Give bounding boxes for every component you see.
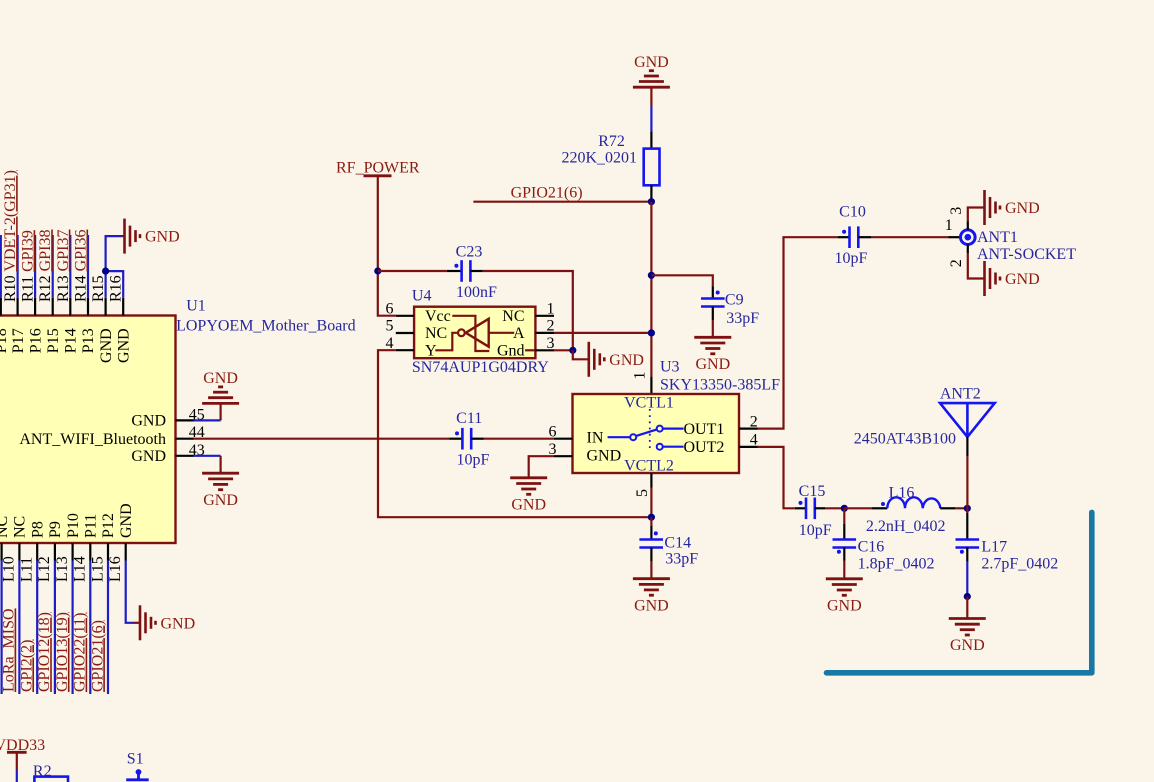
IC U1 LOPYOEM_Mother_Board body [0,316,176,544]
wire vertical net [650,202,652,377]
wire [71,561,73,695]
U4 pin 3 Gnd [497,335,555,360]
svg-text:LOPYOEM_Mother_Board: LOPYOEM_Mother_Board [176,317,356,334]
wire [194,419,221,421]
junction U4 pin3/C23 [569,347,576,354]
svg-text:R12 GPI38: R12 GPI38 [37,230,54,302]
U4 pin 2 A [513,318,555,343]
svg-text:U1: U1 [186,298,206,315]
U4 inverter triangle [466,319,489,347]
wire ANT1 pin3 to gnd [968,208,985,222]
svg-text:GND: GND [634,54,669,71]
svg-text:GND: GND [511,497,546,514]
svg-text:C14: C14 [664,534,691,551]
U4 pin 6 Vcc [386,301,451,326]
svg-text:C23: C23 [456,244,483,261]
wire [0,235,2,298]
wire RF_POWER vertical [378,176,396,316]
junction R72/GPIO21 [648,198,655,205]
ground (C9) [694,337,731,373]
ground (C14) [633,579,670,615]
wire [16,769,18,782]
svg-text:L12: L12 [36,556,53,582]
wire GPIO21(6) [473,201,651,203]
resistor R72 220K_0201 [561,131,659,202]
wire [87,235,89,298]
svg-text:IN: IN [587,429,604,446]
svg-text:GND: GND [827,598,862,615]
svg-text:R15: R15 [90,275,107,302]
svg-text:R72: R72 [598,133,625,150]
U1 top pin GND [98,298,115,363]
svg-text:10pF: 10pF [799,522,832,539]
wire C23 right to U4 Gnd net [483,271,573,350]
svg-text:NC: NC [0,516,11,538]
svg-text:2.7pF_0402: 2.7pF_0402 [981,555,1058,572]
svg-text:OUT1: OUT1 [684,421,725,438]
svg-text:Vcc: Vcc [425,308,451,325]
svg-text:3: 3 [547,335,555,352]
svg-text:S1: S1 [127,751,144,768]
svg-text:1.8pF_0402: 1.8pF_0402 [858,555,935,572]
wire [484,438,554,440]
svg-text:NC: NC [425,325,447,342]
svg-text:GND: GND [695,356,730,373]
svg-text:C9: C9 [725,292,744,309]
svg-text:GND: GND [145,229,180,246]
U4 internal Y link [435,333,458,351]
wire [89,561,91,695]
svg-text:GND: GND [161,615,196,632]
svg-text:ANT2: ANT2 [940,386,981,403]
ground (ANT1 pin 2) [985,261,1040,296]
wire ANT_WIFI_Bluetooth [194,438,450,440]
svg-text:2450AT43B100: 2450AT43B100 [854,431,956,448]
junction VCTL2/C14 [648,514,655,521]
ground (C16) [826,579,863,615]
svg-text:P15: P15 [45,328,62,353]
svg-text:L15: L15 [89,556,106,582]
U1 bottom pin P11 [83,514,100,561]
junction C15/C16/L16 [841,505,848,512]
svg-text:5: 5 [386,318,394,335]
U4 internal A link [489,332,515,334]
U1 pin 45 GND [131,406,204,429]
svg-text:GND: GND [634,597,669,614]
svg-text:ANT-SOCKET: ANT-SOCKET [977,246,1076,263]
svg-text:GND: GND [131,413,166,430]
svg-text:P18: P18 [0,328,10,353]
wire [220,403,222,420]
svg-text:R11 GPI39: R11 GPI39 [20,230,37,302]
svg-text:R10 VDET-2(GP31): R10 VDET-2(GP31) [2,170,19,302]
wire [650,87,652,105]
svg-text:C15: C15 [799,483,826,500]
svg-text:R16: R16 [108,275,125,302]
svg-text:U3: U3 [660,359,680,376]
wire [650,105,652,131]
svg-text:2: 2 [948,259,965,267]
U4 internal Vcc link [452,316,489,351]
wire U4 pin4 Y to VCTL2 [378,350,651,517]
svg-text:LoRa_MISO: LoRa_MISO [1,608,18,692]
svg-text:P10: P10 [65,513,82,538]
wire [966,597,968,619]
U3 pin 6 IN [549,423,604,446]
ground (U3 GND) [510,478,547,514]
capacitor C15 10pF [795,483,832,539]
svg-text:Y: Y [425,342,437,359]
svg-text:P8: P8 [29,521,46,538]
svg-text:220K_0201: 220K_0201 [561,149,637,166]
junction A-pin branch [648,329,655,336]
wire stub to ground [122,235,125,237]
border corner (teal) [827,512,1092,672]
power port VDD33 [0,737,45,754]
svg-text:GND: GND [203,370,238,387]
svg-text:GND: GND [1005,271,1040,288]
capacitor C11 10pF [449,410,489,469]
svg-text:L10: L10 [1,556,18,582]
svg-text:C16: C16 [858,539,885,556]
capacitor C10 10pF [835,204,871,267]
antenna socket ANT1 [945,207,1076,267]
wire [955,507,967,509]
wire [712,320,714,337]
capacitor C16 1.8pF_0402 [833,508,935,572]
svg-text:6: 6 [386,301,394,318]
svg-text:ANT1: ANT1 [977,229,1018,246]
wire OUT1 to C10 [758,237,839,428]
svg-text:L16: L16 [107,556,124,582]
U3 pin 2 OUT1 [684,413,758,438]
wire [844,507,872,509]
svg-text:P12: P12 [100,513,117,538]
U1 top pin P16 [27,298,44,353]
svg-text:GND: GND [203,492,238,509]
wire [36,561,38,695]
svg-text:GPIO22(11): GPIO22(11) [72,613,89,692]
svg-text:L11: L11 [18,557,35,582]
wire [843,561,845,579]
U1 pin 44 ANT_WIFI_Bluetooth [19,424,204,448]
junction C9 branch [648,272,655,279]
svg-text:L14: L14 [72,556,89,582]
svg-text:P16: P16 [27,328,44,353]
wire [650,517,652,526]
wire [17,235,19,298]
junction R15/R16 [102,268,109,275]
svg-text:P13: P13 [80,328,97,353]
svg-text:RF_POWER: RF_POWER [336,160,420,177]
svg-text:33pF: 33pF [726,310,759,327]
svg-text:2.2nH_0402: 2.2nH_0402 [866,518,946,535]
wire [69,235,71,298]
wire [651,275,712,286]
svg-text:SKY13350-385LF: SKY13350-385LF [660,376,780,393]
U1 bottom pin NC [12,516,29,561]
wire [18,561,20,695]
U1 top pin GND [115,298,132,363]
svg-text:U4: U4 [412,288,432,305]
svg-text:1: 1 [547,301,555,318]
capacitor C9 33pF [701,286,759,327]
U1 bottom pin GND [118,503,135,560]
U1 bottom pin P10 [65,513,82,560]
wire U4 pin2 A to net [554,332,651,334]
svg-text:R13 GPI37: R13 GPI37 [55,230,72,302]
capacitor C14 33pF [639,526,698,567]
svg-text:C11: C11 [456,410,482,427]
svg-text:5: 5 [634,489,651,497]
U1 bottom pin P12 [100,513,117,560]
U4 pin 5 NC [386,318,448,343]
svg-text:OUT2: OUT2 [684,439,725,456]
wire R16 net [106,271,124,298]
svg-text:2: 2 [750,413,758,430]
switch S1 [126,751,149,780]
svg-text:GND: GND [1005,200,1040,217]
svg-text:P17: P17 [10,328,27,353]
svg-text:P11: P11 [83,514,100,538]
wire [966,456,968,508]
IC U3 SKY13350-385LF body [573,394,740,473]
ground (top, above R72) [633,54,670,87]
svg-text:P14: P14 [63,328,80,353]
svg-text:GND: GND [609,352,644,369]
svg-text:Gnd: Gnd [497,343,525,360]
svg-text:10pF: 10pF [456,452,489,469]
U4 pin 4 Y [386,335,438,360]
svg-text:GND: GND [950,637,985,654]
U1 top pin P13 [80,298,97,353]
svg-text:1: 1 [945,217,953,234]
resistor R2 [33,763,68,782]
capacitor C23 100nF [447,244,497,301]
IC U4 SN74AUP1G04DRY body [414,307,535,359]
U3 switch symbol [608,409,684,452]
capacitor L17 2.7pF_0402 [956,508,1059,572]
wire [54,561,56,695]
wire [966,562,968,597]
U1 bottom pin NC [0,516,11,561]
junction below L17 [964,593,971,600]
wire U3 pin1 [650,377,652,394]
wire [52,235,54,298]
wire [825,507,844,509]
svg-text:GPIO13(19): GPIO13(19) [54,612,71,692]
U1 bottom pin P8 [29,521,46,560]
U1 pin 43 GND [131,442,204,465]
ground (L17) [949,619,986,655]
svg-text:L17: L17 [981,539,1007,556]
svg-text:33pF: 33pF [665,550,698,567]
svg-text:GPI2(2): GPI2(2) [18,640,35,692]
ground (R15/R16) [125,219,180,254]
svg-text:SN74AUP1G04DRY: SN74AUP1G04DRY [412,359,549,376]
svg-text:L13: L13 [54,556,71,582]
svg-text:GPIO21(6): GPIO21(6) [511,185,583,202]
svg-text:R14 GPI36: R14 GPI36 [73,230,90,302]
svg-text:GPIO21(6): GPIO21(6) [89,620,106,692]
wire [650,562,652,579]
svg-text:3: 3 [948,207,965,215]
wire [573,350,589,359]
svg-text:GND: GND [587,448,622,465]
wire ANT1 pin2 to gnd [968,253,985,279]
svg-text:GND: GND [118,503,135,538]
wire [107,561,109,695]
svg-text:100nF: 100nF [456,284,497,301]
svg-text:A: A [513,325,525,342]
U1 top pin P17 [10,298,27,353]
svg-text:4: 4 [750,432,758,449]
svg-text:C10: C10 [839,204,866,221]
U1 top pin P14 [63,298,80,353]
junction L16/ANT2/L17 [964,505,971,512]
junction RF_POWER/C23 [374,267,381,274]
wire [16,752,18,769]
svg-text:GND: GND [115,328,132,363]
svg-text:10pF: 10pF [835,250,868,267]
svg-text:NC: NC [502,308,524,325]
wire [220,456,222,473]
svg-text:VCTL2: VCTL2 [624,458,674,475]
U3 pin 4 OUT2 [684,432,758,456]
U1 top pin P18 [0,298,10,353]
wire [871,236,949,238]
svg-text:ANT_WIFI_Bluetooth: ANT_WIFI_Bluetooth [19,431,166,448]
wire [378,270,447,272]
ground (ANT1 pin 3) [985,190,1040,225]
svg-text:P9: P9 [47,521,64,538]
antenna ANT2 2450AT43B100 [854,386,995,457]
svg-text:GND: GND [131,448,166,465]
ground (pin 43) [202,473,239,509]
svg-text:NC: NC [12,516,29,538]
wire OUT2 to C15 [758,447,795,508]
wire U4 pin3 to gnd [554,349,573,351]
U4 inverter bubble [458,329,465,336]
svg-text:L16: L16 [889,485,915,502]
wire U3 pin3 to gnd [529,456,554,478]
svg-text:1: 1 [632,372,649,380]
wire [1,561,3,695]
ground (U1 bottom GND pin) [140,605,195,640]
wire R15 net [106,236,122,298]
svg-text:2: 2 [547,318,555,335]
svg-text:GPIO12(18): GPIO12(18) [36,612,53,692]
wire [194,455,221,457]
U3 pin 5 VCTL2 [634,473,651,497]
U1 top pin P15 [45,298,62,353]
ground (pin 45) [202,370,239,403]
wire L16-pin to ground [126,561,133,623]
svg-text:GND: GND [98,328,115,363]
U1 bottom pin P9 [47,521,64,560]
ground (U4 Gnd) [589,342,644,377]
U4 internal Gnd link [525,349,535,351]
wire [650,488,652,518]
U4 pin 1 NC [502,301,554,326]
wire [34,235,36,298]
U3 pin 3 GND [549,441,622,465]
inductor L16 2.2nH_0402 [866,485,955,535]
power port RF_POWER [336,160,420,177]
